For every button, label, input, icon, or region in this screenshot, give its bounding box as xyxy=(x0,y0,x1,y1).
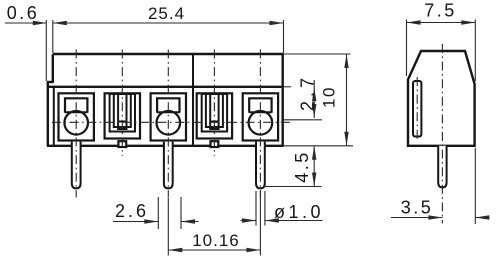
svg-text:0.6: 0.6 xyxy=(7,3,40,23)
vertical center line, pole 5 xyxy=(259,50,261,198)
dim 2.7: extension xyxy=(284,86,292,88)
screw terminal compartment 5: clamp body square xyxy=(249,98,271,113)
front housing: strip bottom edge xyxy=(47,86,284,88)
wire slot compartment 4: outer channel xyxy=(202,94,227,132)
side view wire slot xyxy=(413,81,421,137)
dim line 7.5 xyxy=(407,22,476,24)
wire slot compartment 4: cavity outline xyxy=(197,93,232,138)
dim 25.4: dimension line with arrows xyxy=(53,22,284,24)
dim 10: extensions xyxy=(284,53,351,55)
dim line 10.16 xyxy=(168,249,260,251)
dim 7.5: extensions xyxy=(406,20,408,77)
screw terminal compartment 1: cavity outline xyxy=(59,93,94,140)
dim line dia 1.0 xyxy=(241,220,257,222)
dim line 2.7 xyxy=(313,80,315,118)
dim 25.4 extension line right xyxy=(283,20,285,53)
svg-text:ø1.0: ø1.0 xyxy=(274,202,324,222)
side view center line xyxy=(441,44,443,224)
screw terminal compartment 1: clamp square bottom edge xyxy=(65,111,87,113)
dim line 10 xyxy=(346,54,348,146)
wire slot compartment 2: inner slot xyxy=(118,94,126,129)
dim dia 1.0: extensions xyxy=(255,191,257,226)
screw terminal compartment 3: cavity outline xyxy=(151,93,186,140)
dim 0.6: leader + arrow xyxy=(5,22,46,24)
svg-text:7.5: 7.5 xyxy=(424,1,457,21)
svg-text:10: 10 xyxy=(320,86,339,108)
wire slot compartment 4: middle channel xyxy=(206,94,223,127)
solder pin 5 xyxy=(256,142,265,189)
front housing: top strip left edge xyxy=(52,54,54,82)
wire slot compartment 4: bottom latch tab xyxy=(211,141,219,147)
front housing: top strip top edge xyxy=(53,53,284,55)
dim 3.5: extension xyxy=(474,148,476,224)
front housing: module joint line xyxy=(192,54,194,146)
wire slot compartment 2: outer channel xyxy=(110,94,135,132)
vertical center line, pole 2 xyxy=(121,50,123,157)
front housing: body bottom edge xyxy=(47,145,284,147)
svg-text:2.6: 2.6 xyxy=(115,201,149,221)
wire slot compartment 4: wire hole top edge xyxy=(210,121,218,123)
solder pin 1 xyxy=(72,142,81,189)
svg-text:3.5: 3.5 xyxy=(401,198,434,218)
svg-text:25.4: 25.4 xyxy=(148,4,185,23)
screw terminal compartment 1: screw head circle xyxy=(64,111,88,135)
dim 10.16: extensions xyxy=(167,198,169,255)
wire slot compartment 2: bottom latch tab xyxy=(118,141,126,147)
dim 0.6 extension lines xyxy=(45,20,47,81)
svg-text:10.16: 10.16 xyxy=(192,231,240,250)
front housing: left step (0.6 offset) xyxy=(47,81,54,83)
screw terminal compartment 5: clamp square bottom edge xyxy=(249,111,271,113)
front housing: inner left wall xyxy=(53,87,55,146)
screw terminal compartment 5: cavity outline xyxy=(243,93,278,140)
svg-text:4.5: 4.5 xyxy=(292,150,312,183)
wire slot compartment 2: middle channel xyxy=(114,94,131,127)
dim line 3.5 xyxy=(391,217,442,219)
screw terminal compartment 3: screw head circle xyxy=(157,111,181,135)
front housing: body right edge xyxy=(282,54,284,146)
svg-text:2.7: 2.7 xyxy=(298,74,318,111)
wire slot compartment 2: wire hole top edge xyxy=(118,121,126,123)
front housing: body left edge xyxy=(47,82,49,146)
side view pin xyxy=(438,146,446,188)
dim line 2.6 xyxy=(113,221,158,223)
dim 4.5: extension xyxy=(263,186,322,188)
screw terminal compartment 5: screw head circle xyxy=(249,111,273,135)
screw terminal compartment 1: clamp body square xyxy=(65,98,87,113)
dim 2.6: extensions xyxy=(157,197,159,229)
vertical center line, pole 1 xyxy=(75,50,77,198)
screw terminal compartment 3: clamp square bottom edge xyxy=(157,111,179,113)
side view: housing outline xyxy=(408,51,475,146)
wire slot compartment 4: inner slot xyxy=(210,94,218,129)
wire slot compartment 2: cavity outline xyxy=(105,93,140,138)
vertical center line, pole 3 xyxy=(167,50,169,198)
screw terminal compartment 3: clamp body square xyxy=(157,98,179,113)
vertical center line, pole 4 xyxy=(213,50,215,157)
solder pin 3 xyxy=(164,142,173,189)
side slot center line xyxy=(416,77,418,140)
dim line 4.5 xyxy=(313,146,315,187)
horizontal screw axis center line xyxy=(52,121,290,123)
